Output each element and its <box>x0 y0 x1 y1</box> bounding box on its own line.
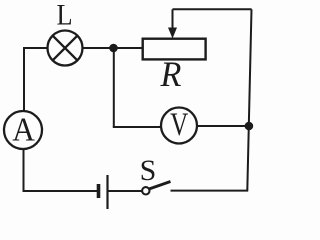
wire: wiper arrow to top-right corner <box>173 8 252 10</box>
ammeter A1 <box>4 111 42 149</box>
wire top: corner to lamp left terminal <box>23 47 48 49</box>
wire bottom-left: corner to battery negative <box>23 190 98 192</box>
wire: voltmeter to right vertical <box>197 125 249 127</box>
svg-text:A: A <box>12 111 35 148</box>
wire: lamp to junction node A <box>83 47 114 49</box>
voltmeter V1 <box>161 108 197 144</box>
wire top-left: left vertical from top corner down to ammeter <box>23 48 25 111</box>
switch S1 pivot <box>142 187 149 194</box>
svg-text:L: L <box>56 0 72 32</box>
battery BT1 positive plate (long thin) <box>106 175 108 209</box>
wire: junction to rheostat left terminal <box>114 47 143 49</box>
wire: voltmeter branch left segment <box>113 126 162 128</box>
svg-text:V: V <box>170 107 188 143</box>
wire right vertical <box>247 9 251 190</box>
wire: junction down to voltmeter branch <box>113 48 115 127</box>
wire: ammeter down to bottom-left corner <box>23 149 25 192</box>
battery BT1 negative plate (short thick) <box>97 184 101 198</box>
rheostat R1 body <box>143 39 206 60</box>
node A (junction dot) <box>109 44 118 53</box>
svg-text:R: R <box>159 54 181 94</box>
lamp L1 <box>48 31 83 66</box>
wire: battery to switch pivot <box>108 190 143 192</box>
rheostat wiper arrow <box>168 9 177 38</box>
node B (junction dot on right vertical) <box>245 122 254 131</box>
wire: switch fixed contact to bottom-right corner <box>171 190 249 192</box>
svg-text:S: S <box>140 154 157 187</box>
switch S1 blade (open) <box>149 182 171 190</box>
